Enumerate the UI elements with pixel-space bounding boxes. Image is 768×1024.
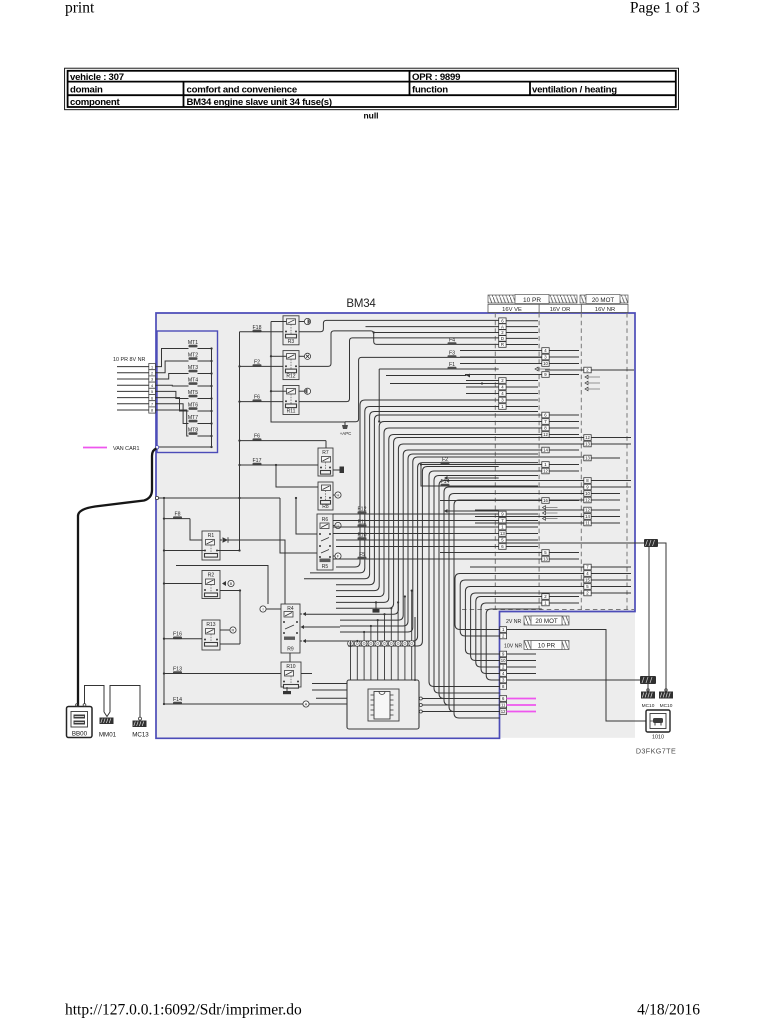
pin col2 4 [542, 348, 549, 354]
svg-text:domain: domain [70, 85, 103, 96]
wire long row F5 to col2 [333, 558, 542, 560]
wire MF05 to ground MC10a [647, 684, 649, 691]
svg-text:R8: R8 [322, 504, 329, 510]
svg-text:MC10: MC10 [642, 703, 655, 709]
pin col1 1 [499, 524, 506, 530]
wire col1 pin 9 right stub [506, 513, 538, 515]
ECU control unit box [347, 680, 419, 729]
wire cascade D5 [454, 500, 584, 718]
wire long row to col1 6 [336, 546, 499, 548]
wire M082 branch right down to MC10b [658, 543, 666, 691]
wire ext stub y654 [507, 653, 536, 655]
pin col2 14 [542, 447, 549, 453]
wire cascade A3 [336, 415, 542, 585]
svg-text:3: 3 [151, 378, 153, 382]
pin col3 13 [584, 455, 591, 461]
node VAN CAR1 terminal on border [155, 446, 158, 449]
wire cascade B3 [471, 593, 584, 661]
svg-text:13: 13 [500, 531, 505, 536]
pin col3 12 [584, 435, 591, 441]
MT box right bus wire [211, 349, 213, 448]
wire cascade B0 [455, 574, 584, 630]
wire BB00 to MM01 [85, 686, 105, 713]
ground MM01 bar [100, 718, 114, 725]
wire col2 pin 5 left [440, 552, 542, 554]
vertical bus x239 fuse feed [239, 332, 241, 551]
wire col3 pin 12 right stub [591, 437, 631, 439]
wire into pin 1 [117, 366, 149, 368]
relay R13 [202, 620, 220, 650]
svg-text:2V NR: 2V NR [506, 619, 522, 625]
svg-text:8: 8 [151, 409, 153, 413]
svg-text:10 PR: 10 PR [523, 297, 541, 304]
connector bar 20 MOT hatched [580, 295, 628, 303]
icon circled X right of R12 [299, 355, 305, 357]
icon circled A before ECU [303, 701, 309, 707]
wire col3 pin 12 right stub [591, 499, 620, 501]
wire pin1 to MT1 [155, 349, 188, 367]
wire F13 from bus to R10 [164, 673, 281, 675]
wire F6 into R7 top [325, 441, 327, 448]
wire col3 pin 8 right stub [591, 480, 631, 482]
wire main feed y498 [157, 497, 280, 499]
hatched label 10 PR [524, 641, 569, 650]
pin col1 5 [499, 537, 506, 543]
icon circled F right of R5 [333, 555, 335, 557]
wire col3 pin 5 right stub [591, 586, 631, 588]
wire long row to col1 13 [333, 533, 499, 535]
svg-text:R13: R13 [206, 622, 215, 628]
info table outer frame [65, 68, 679, 110]
wire cascade B4 [476, 597, 542, 668]
wire pin6 to MT6 [155, 398, 188, 411]
svg-text:1: 1 [151, 365, 153, 369]
pin col2 16 [542, 498, 549, 504]
wire col3 pin 12 right stub [591, 509, 620, 511]
wire F16 from bus [164, 638, 202, 640]
svg-text:vehicle : 307: vehicle : 307 [70, 72, 124, 83]
wire cascade B1 [460, 580, 584, 636]
info table column divider row2-3 left [183, 82, 185, 107]
info table row divider 1 [68, 81, 676, 83]
pin col1 4 [499, 391, 506, 397]
wire cascade A0 [336, 400, 499, 567]
svg-text:MC10: MC10 [660, 703, 673, 709]
wire into pin 8 [117, 409, 149, 411]
svg-text:R2: R2 [208, 573, 215, 579]
pin col3 4 [584, 571, 591, 577]
wire MT7 to right bus [198, 423, 212, 425]
wire MT8 to right bus [198, 435, 212, 437]
info table inner frame [68, 71, 676, 107]
magenta wire 2 [507, 704, 536, 706]
svg-text:I: I [262, 607, 263, 612]
svg-text:14: 14 [585, 514, 590, 519]
pin extension 12 [500, 709, 507, 715]
wire col2 pin 9 left [465, 374, 542, 376]
terminal diamond wire left mid [301, 625, 305, 629]
wire cascade D4 [449, 494, 584, 712]
svg-text:11: 11 [585, 521, 590, 526]
svg-text:10V NR: 10V NR [504, 644, 522, 650]
wire col2 pin 12 right stub [549, 470, 579, 472]
svg-text:12: 12 [543, 432, 548, 437]
svg-text:10: 10 [501, 658, 506, 663]
wire col1 pin 4 right stub [506, 386, 538, 388]
svg-text:OPR : 9899: OPR : 9899 [412, 72, 460, 83]
wire col2 pin 3 right stub [549, 356, 579, 358]
wire cascade A5 [336, 428, 542, 597]
battery BB00 box [67, 707, 93, 738]
wire col3 pin 13 right stub [591, 443, 631, 445]
pin col3 8 [584, 478, 591, 484]
svg-text:11: 11 [501, 703, 506, 708]
wire cascade A11 [340, 457, 584, 632]
terminal diamond mid 2 [444, 509, 448, 513]
icon circled I left of R4 [260, 606, 266, 612]
wire cascade A7 [336, 438, 584, 609]
svg-text:13: 13 [543, 557, 548, 562]
wire pin3 to MT3 [155, 374, 188, 380]
pin col3 12 [584, 497, 591, 503]
pin col2 12 [542, 432, 549, 438]
relay R11 [283, 386, 299, 415]
wire ext pin3 to connector box M [507, 679, 640, 681]
pin col2 3 [542, 354, 549, 360]
svg-text:R5: R5 [322, 564, 329, 570]
svg-text:4/18/2016: 4/18/2016 [637, 1002, 700, 1019]
svg-text:6: 6 [151, 396, 153, 400]
wire col2 pin 1 right stub [549, 602, 579, 604]
wire R9 to R10 [289, 653, 291, 662]
wire R1 right pin to bus x240 [217, 550, 240, 552]
diode D1 right of R1 [220, 539, 222, 541]
wire MT2 to right bus [198, 360, 212, 362]
wire F17 to R7 [240, 464, 319, 466]
pin col3 2 [584, 367, 591, 373]
wire col1 pin 3 right stub [506, 399, 538, 401]
svg-text:comfort and convenience: comfort and convenience [187, 85, 297, 96]
wire junction row y383 [390, 383, 499, 385]
pin col2 9 [542, 372, 549, 378]
wire R3 output to pin row 6 [299, 320, 499, 331]
pin extension 8 [500, 684, 507, 690]
pin extension 10 [500, 658, 507, 664]
svg-text:R9: R9 [287, 647, 294, 653]
wire col2 pin 8 right stub [549, 427, 579, 429]
svg-text:R: R [501, 342, 504, 347]
wire thick battery feed to BB00 [78, 449, 157, 707]
wires from cascade down to ECU pins [350, 641, 352, 646]
wire col2 pin 16 right stub [549, 500, 579, 502]
pin col1 6 [499, 318, 506, 324]
pin col3 10 [584, 491, 591, 497]
wire col1 pin 5 right stub [506, 539, 538, 541]
pin col3 2 [584, 590, 591, 596]
pin col3 15 [584, 577, 591, 583]
wire pin7 to MT7 [155, 404, 188, 424]
wire F6 row y440 [240, 440, 327, 442]
wire bus to R3 switch [271, 321, 287, 323]
wire F8 down to R1 [190, 519, 202, 540]
dashed separator column 3 [580, 313, 582, 610]
wire cascade D2 [439, 481, 584, 699]
relay R1 [202, 531, 220, 560]
wire pin8 to MT8 [155, 410, 188, 436]
terminal dark plug right of R7 [333, 469, 340, 471]
pin col2 1 [542, 462, 549, 468]
wire col1 pin 6 right stub [506, 546, 538, 548]
svg-text:16: 16 [543, 498, 548, 503]
icon circled U right of R6 [333, 525, 335, 527]
pin col2 12 [542, 468, 549, 474]
svg-text:R10: R10 [286, 664, 295, 670]
wire ECU output y711 [419, 710, 422, 713]
wire MT5 to right bus [198, 398, 212, 400]
wire col2 pin 16 left [440, 500, 542, 502]
BB00 terminal circles [76, 704, 79, 707]
svg-text:10: 10 [543, 361, 548, 366]
svg-text:R1: R1 [208, 533, 215, 539]
wire into pin 3 [117, 378, 149, 380]
wire col1 pin 6 right stub [506, 320, 538, 322]
svg-text:+APC: +APC [340, 431, 352, 436]
wire MM01 second leg to MC13 [110, 686, 140, 718]
svg-text:B: B [230, 581, 233, 586]
svg-text:2: 2 [151, 372, 153, 376]
pin col1 3 [499, 397, 506, 403]
wire cascade A4 [336, 422, 542, 591]
wire diode to R4 column [228, 540, 285, 604]
wire F6 bus to R11 [240, 401, 284, 403]
pin col2 13 [542, 556, 549, 562]
dashed separator bottom of connector area [462, 609, 634, 611]
wire col3 pin 2 right stub [591, 592, 631, 594]
svg-text:12: 12 [585, 435, 590, 440]
legend VAN CAR1 magenta line [83, 447, 107, 449]
wire col3 pin 14 right stub [591, 516, 620, 518]
wire cascade D3 [444, 487, 584, 705]
pin col1 13 [499, 531, 506, 537]
magenta wire 1 [507, 698, 536, 700]
wire feed down to R5 [280, 498, 317, 553]
wire col1 pin D right stub [506, 337, 538, 339]
wire col1 pin 2 right stub [506, 380, 538, 382]
wire ECU output y698 [419, 697, 422, 700]
wire col1 pin 2 left stub [466, 380, 499, 382]
wire col3 pin 14 left [475, 516, 584, 518]
pin col2 5 [542, 550, 549, 556]
pin col2 6 [542, 412, 549, 418]
dashed separator column 4 right [626, 313, 628, 610]
svg-text:13: 13 [585, 456, 590, 461]
svg-text:7: 7 [151, 403, 153, 407]
svg-text:BM34 engine slave unit 34 fuse: BM34 engine slave unit 34 fuse(s) [187, 97, 332, 108]
svg-text:component: component [70, 97, 121, 108]
wire col2 pin 1 right stub [549, 464, 579, 466]
wire pin4 to MT4 [155, 384, 188, 387]
connector bar 10 PR hatched [488, 295, 577, 303]
grey diagram background panel [156, 313, 635, 738]
wire cascade A10 [340, 454, 538, 626]
tiny diamond terminals in columns [535, 367, 538, 371]
IC chip U1 [374, 692, 390, 720]
wire ext stub y673 [507, 673, 536, 675]
wire pin5 to MT5 [155, 391, 188, 398]
pin col1 2 [499, 378, 506, 384]
wire col2 pin 13 right stub [549, 558, 579, 560]
wire col3 pin 11 right stub [591, 522, 620, 524]
connector M082 dark box [644, 539, 658, 547]
svg-text:20 MOT: 20 MOT [592, 297, 615, 304]
wires into ECU left side [312, 683, 347, 685]
wire col1 pin A right stub [506, 326, 538, 328]
wire F14 row [421, 465, 538, 487]
pin col1 9 [499, 511, 506, 517]
pin col3 11 [584, 520, 591, 526]
svg-text:R6: R6 [322, 517, 329, 523]
wire col2 pin 12 right stub [549, 434, 579, 436]
terminal arrow right of R4 [300, 613, 302, 615]
BM34 unit blue border [156, 313, 635, 738]
wire col1 pin 7 right stub [506, 520, 538, 522]
svg-text:R: R [232, 628, 235, 633]
wire col3 pin 13 right stub [591, 457, 620, 459]
icon triangle circled B right of R2 [222, 581, 226, 586]
pin extension 3 [500, 677, 507, 683]
wire R10 right [301, 673, 312, 675]
pin col1 6 [499, 544, 506, 550]
ground MC10 b [665, 689, 668, 692]
svg-text:16V NR: 16V NR [595, 307, 615, 313]
wire F3 row from APC bus [345, 357, 542, 421]
pin extension 11 [500, 702, 507, 708]
wire col2 pin 14 right stub [549, 449, 579, 451]
wire col3 pin 2 right stub [591, 369, 634, 371]
wire under R1 [176, 566, 268, 605]
pin col2 2 [542, 594, 549, 600]
ECU inner frame [368, 689, 399, 721]
wire col1 pin 4 right stub [506, 393, 538, 395]
svg-text:5: 5 [151, 390, 153, 394]
svg-text:A: A [305, 702, 308, 707]
wire cascade A1 [310, 407, 499, 573]
wire branch to R8 upper pin [276, 465, 318, 487]
svg-text:BB00: BB00 [72, 730, 88, 737]
pin col3 12 [584, 507, 591, 513]
wire cascade A9 [340, 450, 542, 620]
wire ext stub y660 [507, 660, 536, 662]
wire cascade A8 [306, 444, 584, 614]
svg-text:10: 10 [585, 491, 590, 496]
ground MC13 bar [133, 721, 147, 728]
wire col3 pin 9 right stub [591, 486, 631, 488]
pin extension 1 [500, 627, 507, 633]
pin extension 9 [500, 651, 507, 657]
wire column to M082 [506, 542, 644, 544]
pin col1 D [499, 336, 506, 342]
wire diamond row y375 [386, 375, 467, 377]
wire MT4 to right bus [198, 385, 212, 387]
terminal arrow right of R9 [300, 640, 302, 642]
wire col2 pin 4 right stub [549, 350, 579, 352]
wire col3 pin 11 left [475, 522, 584, 524]
wire MT1 to right bus [198, 348, 212, 350]
wire row 2 col1 [374, 332, 499, 334]
wire row A col1 [366, 326, 499, 328]
icon right of R11 [299, 390, 305, 392]
svg-text:15: 15 [585, 578, 590, 583]
wire into pin 7 [117, 403, 149, 405]
wire col1 pin 4 left stub [466, 386, 499, 388]
terminal circle on left border y498 [155, 496, 158, 499]
left coil bus x271 [271, 322, 345, 426]
connector MF05 dark box [640, 676, 656, 684]
wire R2 bottom to bus x240 [220, 591, 240, 645]
hatched label 20 MOT [524, 616, 569, 625]
wire long row to col1 5 [336, 539, 499, 541]
wire cascade A12 [306, 463, 538, 641]
pin extension 6 [500, 696, 507, 702]
wire col3 pin 15 right stub [591, 579, 631, 581]
pin col3 14 [584, 514, 591, 520]
wire cascade B6 [486, 609, 542, 680]
pin col2 8 [542, 425, 549, 431]
wire cascade B5 [481, 603, 542, 674]
svg-text:A: A [501, 324, 504, 329]
info table row divider 2 [68, 94, 676, 96]
svg-text:VAN CAR1: VAN CAR1 [113, 446, 140, 452]
wire col2 pin 9 right stub [549, 374, 579, 376]
pin col2 1 [542, 600, 549, 606]
svg-text:ventilation / heating: ventilation / heating [532, 85, 617, 96]
info table column divider row1 OPR [409, 71, 411, 95]
wire col1 pin 13 right stub [506, 533, 538, 535]
wire long row to col1 9 [333, 513, 499, 515]
wire into pin 2 [117, 372, 149, 374]
wire cascade A6 [336, 435, 542, 603]
wire col2 pin 4 left [460, 350, 542, 352]
terminal +APC [342, 425, 348, 429]
connector box MT blue frame [157, 331, 218, 453]
terminal diamond mid 1 [444, 476, 448, 480]
svg-text:BM34: BM34 [346, 298, 376, 310]
wire M082 down to MF05 [648, 547, 650, 676]
ground MC10 a [647, 689, 650, 692]
wire col3 pin 4 right stub [591, 573, 631, 575]
pin col1 R [499, 342, 506, 348]
wire into pin 4 [117, 384, 149, 386]
svg-text:16V VE: 16V VE [502, 307, 522, 313]
pin col2 7 [542, 419, 549, 425]
svg-text:13: 13 [585, 442, 590, 447]
wire into pin 6 [117, 397, 149, 399]
dashed separator column 1 [494, 313, 496, 610]
ECU pin circles row [348, 641, 354, 647]
external connector pin strip 8 pins [149, 364, 156, 370]
relay pair R4 R9 box [281, 604, 300, 653]
icon circled R right of R13 [220, 629, 230, 631]
wire cascade A13 [348, 467, 499, 647]
svg-text:12: 12 [585, 498, 590, 503]
svg-text:MC13: MC13 [132, 732, 149, 739]
svg-text:Page 1 of 3: Page 1 of 3 [630, 0, 700, 17]
wire ECU right corner vertical [414, 617, 416, 680]
wire F18 bus to R3 [240, 331, 284, 333]
pin col1 A [499, 324, 506, 330]
pin col1 1 [499, 404, 506, 410]
wire F8 from bus [164, 518, 190, 520]
